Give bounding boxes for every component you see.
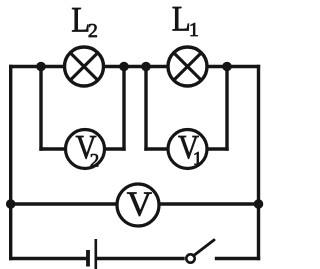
svg-text:V: V bbox=[127, 185, 152, 224]
svg-text:V2: V2 bbox=[76, 129, 100, 172]
svg-text:V1: V1 bbox=[178, 129, 202, 169]
